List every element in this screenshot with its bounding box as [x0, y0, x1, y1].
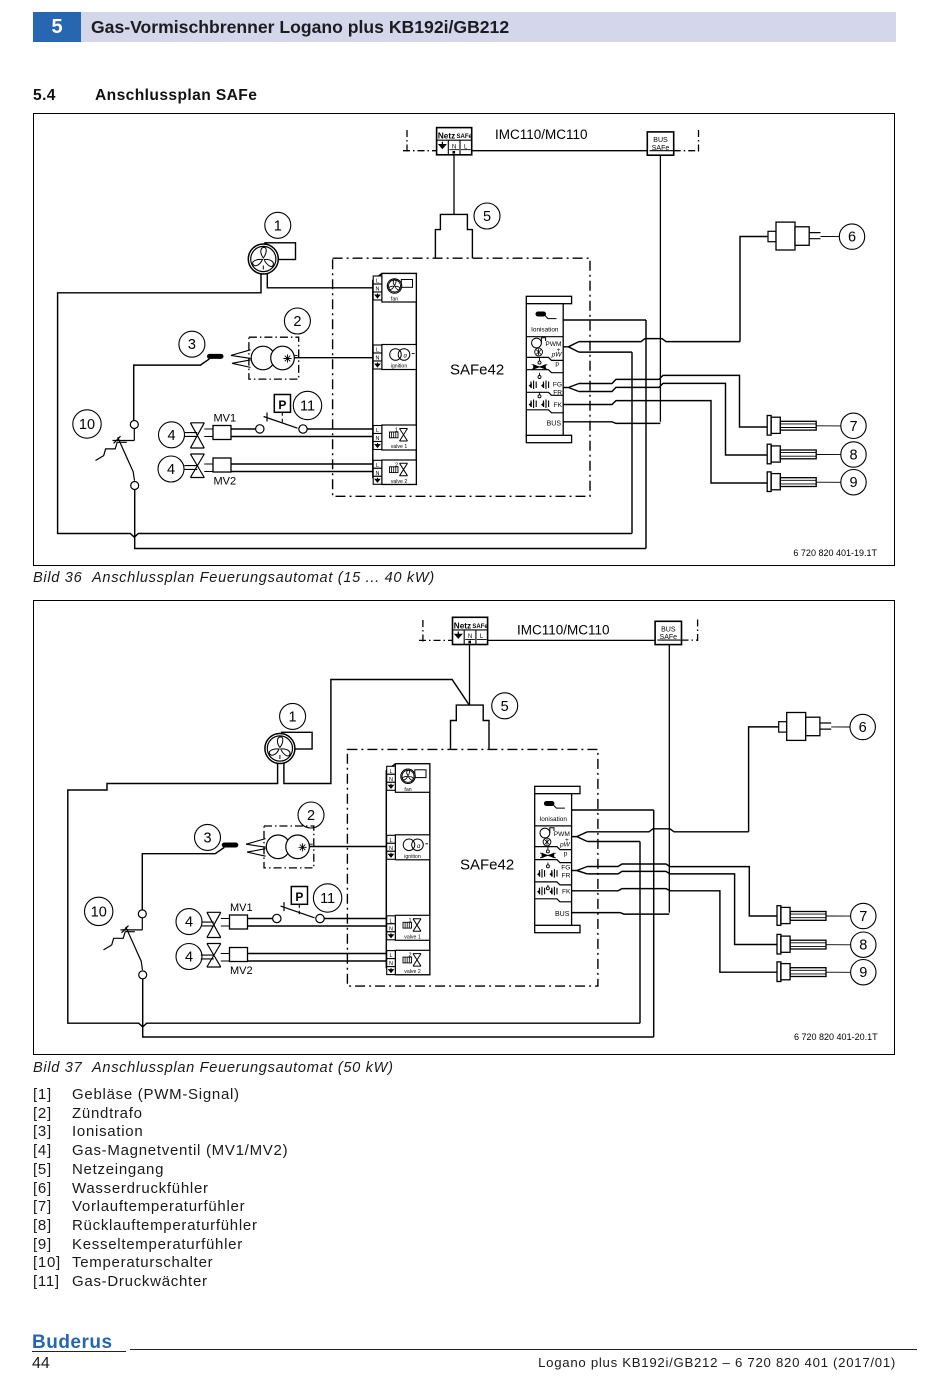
svg-text:valve 2: valve 2 [391, 479, 408, 485]
gas pressure switch contacts [273, 902, 325, 923]
boiler temperature sensor [777, 962, 851, 982]
callout 1 [265, 212, 291, 238]
valve 2 module [373, 460, 416, 485]
callout 6 [850, 714, 875, 739]
spark gap electrodes [246, 839, 266, 857]
svg-text:2: 2 [293, 314, 301, 330]
wire switch bottom to ionisation loop (bottom line 2) [143, 979, 654, 1037]
wire fan left lead to pW loop (bottom line 1) [58, 273, 632, 537]
wire FK to sensor 9 [563, 401, 767, 483]
FG FR row icons + labels [529, 373, 563, 397]
PWM row icons + labels [532, 338, 563, 359]
gas pressure switch contacts [256, 413, 308, 434]
dash-dot bracket right of BUS [682, 618, 699, 642]
wire MV1 L with pressure switch [231, 428, 373, 430]
wire switch bottom to ionisation loop (bottom line 2) [135, 490, 646, 549]
pressure switch P box [291, 887, 307, 917]
water pressure sensor [749, 713, 850, 832]
gas valve MV2 [184, 454, 236, 488]
wire pW vertical [631, 352, 633, 533]
ignition transformer T1 [264, 826, 314, 868]
callout 8 [841, 442, 866, 467]
svg-text:SAFe: SAFe [457, 134, 473, 140]
Buderus logo [32, 1332, 113, 1354]
valve 2 module [387, 950, 430, 975]
wire electrode to switch [142, 847, 224, 910]
svg-text:5: 5 [483, 209, 491, 225]
FK row icons + label [537, 885, 571, 896]
legend [33, 1086, 288, 1292]
wire PWM top to sensor 6 [587, 829, 748, 832]
svg-text:7: 7 [859, 909, 867, 925]
svg-text:N: N [376, 287, 380, 293]
callout 4 (MV1) [176, 909, 202, 935]
BUS SAFe box [647, 132, 673, 155]
wire PWM top to sensor 6 [579, 339, 740, 342]
svg-text:p: p [555, 360, 559, 367]
svg-text:1: 1 [274, 218, 282, 234]
pressure switch P box [274, 395, 290, 425]
svg-text:P: P [278, 398, 286, 412]
svg-text:BUS: BUS [653, 137, 668, 144]
svg-text:6: 6 [848, 230, 856, 246]
wire FR to sensor 8 [579, 383, 767, 455]
wire BUS row [572, 913, 670, 915]
svg-text:MV1: MV1 [214, 412, 237, 424]
water pressure sensor [740, 222, 839, 342]
svg-text:10: 10 [91, 904, 107, 920]
SAFe42 control box (dash-dot) [347, 749, 598, 986]
p row icon + label [540, 847, 568, 859]
ionisation row icon + label [540, 801, 568, 823]
svg-text:Ionisation: Ionisation [531, 327, 559, 334]
svg-text:L: L [376, 463, 379, 469]
FK row icons + label [529, 392, 563, 409]
callout 6 [839, 224, 864, 249]
svg-text:BUS: BUS [555, 911, 570, 918]
ionisation electrode [224, 843, 236, 848]
temperature switch [96, 421, 139, 490]
svg-text:5: 5 [501, 699, 509, 715]
svg-text:2: 2 [307, 808, 315, 824]
svg-text:L: L [376, 348, 379, 354]
svg-text:pW: pW [559, 841, 571, 848]
svg-text:8: 8 [849, 448, 857, 464]
wire FG FR split [572, 867, 588, 874]
wire pW bottom [587, 841, 640, 843]
svg-text:BUS: BUS [547, 420, 562, 427]
svg-text:6 720 820 401-19.1T: 6 720 820 401-19.1T [793, 548, 877, 558]
right terminal strip [526, 296, 571, 442]
spark gap electrodes [231, 350, 251, 368]
wire transformer to ignition module [294, 357, 373, 359]
callout 4 (MV2) [158, 456, 184, 482]
dash-dot bracket left of Netz [403, 128, 437, 152]
wire electrode to switch [134, 359, 210, 421]
svg-text:9: 9 [859, 965, 867, 981]
dash-dot bracket left of Netz [419, 618, 453, 642]
svg-text:pW: pW [551, 351, 563, 358]
callout 9 [851, 960, 876, 985]
svg-text:3: 3 [188, 337, 196, 353]
wire fan right lead up to mains junction [284, 680, 469, 784]
ignition transformer T1 [249, 337, 299, 379]
callout 5 [492, 693, 518, 719]
svg-text:p: p [564, 851, 568, 858]
wire BUS row [563, 422, 660, 424]
callout 2 [298, 802, 324, 828]
ionisation row icon + label [531, 312, 559, 334]
wire ionisation vertical [645, 320, 647, 549]
callout 4 (MV2) [176, 944, 202, 970]
svg-text:MV2: MV2 [214, 476, 237, 488]
mains terminal Netz SAFe [437, 128, 473, 155]
dash-dot bracket right of BUS [674, 128, 699, 152]
return temperature sensor [767, 444, 841, 464]
callout 11 [313, 884, 341, 912]
wire MV1 N [231, 436, 373, 438]
svg-text:IMC110/MC110: IMC110/MC110 [517, 623, 610, 638]
gas valve MV1 [185, 412, 236, 448]
caption Bild 36 [33, 570, 533, 586]
svg-text:fan: fan [391, 297, 398, 303]
wire MV1 N [248, 925, 387, 927]
callout 3 [179, 331, 205, 357]
header chapter number box [33, 12, 81, 42]
svg-text:L: L [376, 428, 379, 434]
svg-text:FG: FG [561, 864, 570, 871]
callout 9 [841, 470, 866, 495]
callout 8 [851, 932, 876, 957]
callout 10 [73, 410, 101, 438]
wires MV2 L and N [248, 954, 387, 962]
fan module [373, 274, 416, 303]
fan module [387, 764, 430, 793]
caption Bild 37 [33, 1060, 533, 1076]
wire Netz to BUS [472, 150, 648, 152]
wire BUS down [659, 155, 661, 422]
FG FR row icons + labels [537, 863, 571, 880]
svg-text:11: 11 [320, 891, 335, 907]
wire ionisation row [563, 319, 646, 321]
temperature switch [104, 910, 147, 979]
wire PWM split [572, 832, 588, 842]
callout 7 [841, 413, 866, 438]
boiler temperature sensor [767, 472, 841, 492]
PWM row icons + labels [540, 828, 571, 849]
svg-text:1: 1 [289, 709, 297, 725]
svg-text:9: 9 [849, 475, 857, 491]
svg-text:IMC110/MC110: IMC110/MC110 [495, 127, 588, 142]
svg-text:SAFe42: SAFe42 [460, 857, 514, 874]
wire fan left lead to pW loop (bottom line 1) [68, 763, 640, 1027]
svg-text:FK: FK [562, 889, 571, 896]
svg-text:4: 4 [185, 950, 193, 966]
BUS SAFe box [655, 621, 681, 644]
fan / blower unit [248, 243, 295, 274]
svg-text:FG: FG [553, 381, 562, 388]
svg-text:FR: FR [562, 872, 571, 879]
callout 1 [280, 703, 306, 729]
svg-text:L: L [376, 279, 379, 285]
callout 10 [85, 897, 113, 925]
section heading [33, 87, 433, 105]
diagram frame [34, 114, 895, 566]
svg-text:Netz: Netz [438, 132, 455, 141]
gas valve MV2 [201, 944, 253, 978]
wire FR to sensor 8 [587, 871, 777, 944]
svg-text:N: N [376, 436, 380, 442]
wire pW vertical [639, 842, 641, 1024]
wire MV1 L with pressure switch [248, 918, 387, 920]
mains plug connector [435, 214, 472, 258]
wire FG to sensor 7 [587, 864, 777, 916]
svg-text:11: 11 [300, 399, 315, 415]
mains terminal Netz SAFe [453, 617, 489, 644]
svg-text:FR: FR [553, 389, 562, 396]
svg-text:Ionisation: Ionisation [540, 816, 568, 823]
wire FG FR split [563, 384, 579, 392]
wire N down to plug [469, 645, 471, 705]
wire pW bottom [579, 351, 632, 353]
svg-text:ignition: ignition [391, 364, 408, 370]
svg-text:4: 4 [167, 428, 175, 444]
svg-text:6 720 820 401-20.1T: 6 720 820 401-20.1T [794, 1032, 878, 1042]
svg-text:6: 6 [859, 720, 867, 736]
mains plug connector [451, 705, 490, 749]
flow temperature sensor [777, 906, 851, 926]
header bar [81, 12, 896, 42]
callout 2 [284, 308, 310, 334]
right terminal strip [535, 786, 580, 932]
p row icon + label [532, 357, 560, 369]
page number [32, 1355, 50, 1373]
svg-text:valve 1: valve 1 [391, 444, 408, 450]
ignition module [387, 835, 430, 860]
diagram frame [34, 601, 895, 1055]
valve 1 module [373, 425, 416, 450]
flow temperature sensor [767, 416, 841, 436]
ignition module [373, 345, 416, 370]
gas valve MV1 [201, 902, 252, 938]
svg-text:4: 4 [167, 462, 175, 478]
valve 1 module [387, 915, 430, 940]
wires MV2 L and N [231, 464, 373, 472]
wire FK to sensor 9 [572, 889, 777, 973]
ionisation electrode [210, 354, 222, 359]
wire transformer to ignition module [309, 846, 386, 848]
footer document id [538, 1355, 896, 1370]
return temperature sensor [777, 934, 851, 954]
wire fan right lead to fan module N [267, 273, 373, 288]
svg-text:10: 10 [79, 417, 95, 433]
svg-text:4: 4 [185, 915, 193, 931]
fan / blower unit [265, 732, 312, 763]
svg-text:SAFe42: SAFe42 [450, 362, 504, 379]
svg-text:8: 8 [859, 938, 867, 954]
callout 4 (MV1) [159, 422, 185, 448]
left terminal strip body [373, 274, 417, 485]
wire Netz to BUS [488, 639, 655, 641]
wire PWM split [563, 342, 579, 353]
callout 5 [474, 203, 500, 229]
wire FG to sensor 7 [579, 375, 767, 427]
wire BUS down [668, 645, 670, 913]
callout 3 [195, 824, 221, 850]
callout 11 [293, 391, 321, 419]
svg-text:3: 3 [203, 830, 211, 846]
svg-text:FK: FK [554, 402, 563, 409]
wire ionisation row [572, 809, 654, 811]
svg-text:N: N [376, 356, 380, 362]
svg-text:N: N [376, 471, 380, 477]
SAFe42 control box (dash-dot) [333, 258, 590, 496]
svg-text:N: N [452, 144, 456, 150]
left terminal strip body [386, 764, 430, 975]
svg-text:7: 7 [849, 419, 857, 435]
wire ionisation vertical [653, 810, 655, 1037]
callout 7 [851, 903, 876, 928]
wire N down to plug [453, 155, 455, 215]
